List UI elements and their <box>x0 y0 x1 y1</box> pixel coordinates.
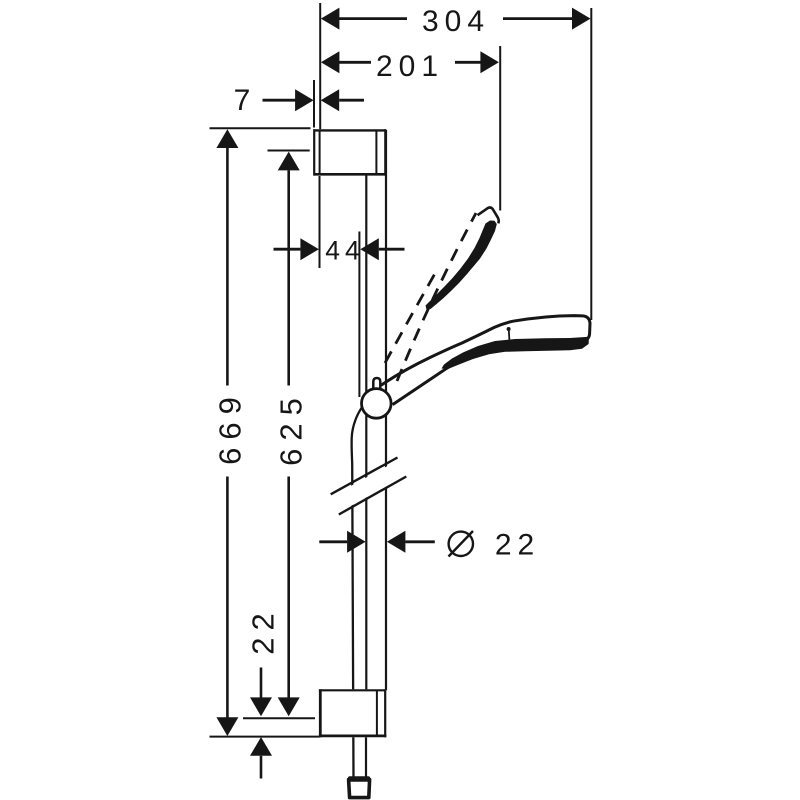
dimension 44 extension line below top bracket <box>319 176 321 268</box>
ghost band bumps <box>466 245 487 268</box>
bottom wall bracket <box>319 689 387 737</box>
dimension 7 right-pointing arrow <box>295 89 314 111</box>
hose left edge from slider to bottom <box>352 407 363 779</box>
hose right edge below bottom bracket <box>365 737 367 778</box>
slider knob <box>373 378 380 390</box>
dimension 44 line left part <box>274 248 301 251</box>
svg-text:7: 7 <box>234 84 251 117</box>
svg-text:44: 44 <box>325 236 364 266</box>
svg-text:304: 304 <box>422 5 490 38</box>
dimension 201 left arrow <box>321 51 340 73</box>
wire: extension line y=128.5 for dim 669 top <box>210 127 311 129</box>
dimension 304 right arrow <box>572 8 591 30</box>
rail left edge <box>365 130 367 737</box>
top wall bracket <box>314 129 386 175</box>
svg-text:625: 625 <box>274 390 309 466</box>
wire: right extension line x=500 for dim 201 <box>499 46 501 211</box>
rail break diagonal 2 <box>339 477 407 515</box>
dimension 625 down arrow <box>278 697 300 716</box>
svg-text:201: 201 <box>376 50 444 83</box>
dimension 22 (bottom) upper line <box>260 668 263 701</box>
ghost handshower left dashed curve <box>385 270 437 363</box>
dimension 669 down arrow <box>216 717 238 736</box>
ghost handshower right dashed curve <box>397 213 476 381</box>
dimension 625 up arrow <box>278 152 300 171</box>
dimension 7 line left part <box>263 99 297 102</box>
svg-text:22: 22 <box>246 606 281 654</box>
dimension 304 left arrow <box>321 8 340 30</box>
ghost handshower head cap outline <box>478 208 499 224</box>
wire: extension line y=718 bottom (625/22) <box>243 717 315 719</box>
svg-text:22: 22 <box>495 529 540 562</box>
dimension 22 lower line <box>260 756 263 779</box>
dimension 44 right-pointing arrow <box>300 238 319 260</box>
dimension 7 left-pointing arrow <box>321 89 340 111</box>
dimension 7 line right part <box>339 99 364 102</box>
rail break mark white band <box>332 460 407 513</box>
dimension 669 vertical line <box>226 148 229 386</box>
wire: extension line y=150.5 for dim 625 top <box>268 150 310 152</box>
dimension diameter 22 left-pointing arrow <box>387 531 406 553</box>
rail break diagonal 1 <box>331 458 398 495</box>
hose connector nut top band <box>348 776 370 782</box>
handshower head tick mark <box>508 330 511 346</box>
dimension 669 up arrow <box>216 129 238 148</box>
dimension 44 left-pointing arrow <box>360 238 379 260</box>
dimension diameter 22 line right <box>405 540 434 543</box>
handshower handle lower outline <box>393 361 459 405</box>
dimension 44 extension line to slider <box>358 232 360 398</box>
dimension 22 up arrow <box>250 737 272 756</box>
dimension 201 right arrow <box>480 51 499 73</box>
handshower handle upper outline and head top/right cap <box>381 316 590 386</box>
wire: right extension line x=591 for dim 304 <box>590 8 592 320</box>
dimension 304 line <box>339 17 407 20</box>
handshower spray face dark band <box>442 337 590 369</box>
wire: extension line x=314 for dim 7 <box>313 80 315 128</box>
wire: left extension line x=320 (shared by dims 304/201/7) <box>319 3 321 130</box>
ghost handshower spray face band <box>426 221 497 310</box>
slider body circle <box>362 389 392 419</box>
dimension 625 vertical line <box>287 170 290 385</box>
wire: extension line y=736.6 bottom (669/22) <box>210 736 321 738</box>
dimension 201 line <box>339 61 371 64</box>
dimension diameter 22 right-pointing arrow <box>347 531 366 553</box>
diameter symbol <box>449 532 473 556</box>
dimension 22 down arrow <box>250 697 272 716</box>
dimension 44 line right part <box>379 248 405 251</box>
hose connector nut body <box>349 780 370 798</box>
rail right edge <box>385 130 387 690</box>
svg-text:669: 669 <box>213 389 248 465</box>
dimension diameter 22 line left <box>319 540 347 543</box>
